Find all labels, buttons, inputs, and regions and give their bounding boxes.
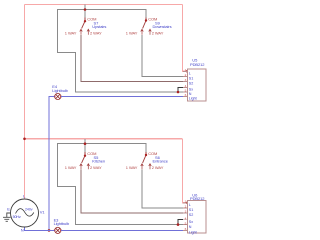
- svg-text:L: L: [23, 193, 26, 198]
- wire branch to U5 pin Sx: [178, 88, 183, 93]
- S5 COM lead: [84, 152, 86, 155]
- svg-text:1: 1: [185, 200, 187, 204]
- U6 body: [188, 201, 207, 233]
- wire S9 1WAY to U5 S1: [142, 35, 183, 77]
- S5 lever: [82, 157, 85, 163]
- svg-text:Downstairs: Downstairs: [153, 24, 172, 29]
- svg-text:5: 5: [185, 89, 187, 93]
- connector U5 PDB212: [183, 57, 206, 101]
- node live rail junction at left vertical: [23, 138, 26, 141]
- svg-text:2 WAY: 2 WAY: [152, 165, 164, 170]
- E3 terminals: [54, 230, 56, 232]
- E4 terminals: [54, 96, 56, 98]
- svg-text:5: 5: [185, 221, 187, 225]
- svg-text:Lightbulb: Lightbulb: [54, 221, 70, 226]
- svg-text:S2: S2: [189, 213, 193, 217]
- svg-text:1 WAY: 1 WAY: [126, 30, 138, 35]
- svg-text:Kitchen: Kitchen: [92, 159, 105, 164]
- svg-text:1: 1: [185, 68, 187, 72]
- wire live bottom rail: [25, 138, 183, 140]
- V1 sine symbol: [16, 209, 34, 216]
- svg-text:Light: Light: [189, 231, 197, 235]
- E3 bulb symbol: [55, 227, 61, 233]
- svg-text:Entrance: Entrance: [153, 159, 169, 164]
- S7 2WAY terminal: [87, 29, 90, 35]
- svg-text:1 WAY: 1 WAY: [65, 30, 77, 35]
- svg-text:3: 3: [185, 78, 187, 82]
- svg-text:Upstairs: Upstairs: [92, 24, 106, 29]
- svg-text:3: 3: [185, 210, 187, 214]
- svg-text:L: L: [189, 72, 191, 76]
- S6 2WAY terminal: [149, 164, 152, 170]
- S6 lever: [143, 156, 146, 163]
- svg-text:2 WAY: 2 WAY: [90, 30, 102, 35]
- S5 1WAY terminal: [80, 164, 83, 170]
- svg-text:S2: S2: [189, 82, 193, 86]
- svg-text:S1: S1: [189, 208, 193, 212]
- lamp E3: [54, 217, 70, 233]
- svg-text:Light: Light: [189, 97, 197, 101]
- wire S9 COM loop across top: [58, 10, 184, 93]
- node crossing of S5 feed and loop: [84, 142, 87, 145]
- wire S6 1WAY to U6 S1: [142, 169, 183, 208]
- svg-text:Lightbulb: Lightbulb: [52, 88, 68, 93]
- S9 COM lead: [145, 18, 147, 21]
- svg-text:N: N: [189, 92, 192, 96]
- switch S7: [65, 17, 107, 36]
- wire live drop to U6 pin L: [183, 139, 188, 203]
- wire S5 1WAY to U6 S2: [81, 169, 183, 213]
- svg-text:6: 6: [185, 93, 187, 97]
- U6 pin stubs 1-6: [183, 203, 188, 231]
- wire S6 COM loop across middle: [58, 144, 184, 225]
- svg-text:PDB212: PDB212: [190, 62, 205, 67]
- wire S5 COM feed from live rail: [84, 139, 86, 152]
- svg-text:Sx: Sx: [189, 220, 193, 224]
- svg-text:S1: S1: [189, 77, 193, 81]
- connector U6 PDB212: [183, 193, 206, 235]
- svg-text:240v: 240v: [25, 208, 33, 212]
- S9 lever: [143, 21, 146, 28]
- svg-text:V1: V1: [40, 210, 46, 215]
- wire S7 COM feed from live rail: [84, 5, 86, 18]
- svg-text:2 WAY: 2 WAY: [152, 30, 164, 35]
- power supply V1: [7, 193, 45, 232]
- lamp E4: [52, 84, 68, 100]
- E4 bulb symbol: [55, 93, 61, 99]
- wire branch to U6 pin Sx: [178, 220, 183, 225]
- svg-text:50Hz: 50Hz: [13, 215, 21, 219]
- switch S9: [126, 17, 172, 36]
- svg-text:2: 2: [185, 205, 187, 209]
- svg-text:N: N: [189, 225, 192, 229]
- S5 2WAY terminal: [87, 164, 90, 170]
- wire E4 neutral drop: [49, 97, 55, 231]
- S9 1WAY terminal: [141, 29, 144, 35]
- svg-text:2 WAY: 2 WAY: [90, 165, 102, 170]
- svg-text:E: E: [7, 206, 10, 211]
- svg-text:Sx: Sx: [189, 88, 193, 92]
- U5 body: [188, 69, 207, 101]
- S9 2WAY terminal: [149, 29, 152, 35]
- svg-text:1 WAY: 1 WAY: [126, 165, 138, 170]
- S6 1WAY terminal: [141, 164, 144, 170]
- wire live drop to U5 pin L: [183, 5, 188, 72]
- svg-text:6: 6: [185, 227, 187, 231]
- node crossing of S7 feed and loop: [84, 8, 87, 11]
- S7 1WAY terminal: [80, 29, 83, 35]
- S5 COM node: [84, 155, 86, 157]
- svg-text:4: 4: [185, 84, 187, 88]
- svg-text:L: L: [189, 203, 191, 207]
- switch S5: [65, 151, 105, 170]
- S7 COM lead: [84, 18, 86, 21]
- S7 COM node: [84, 20, 86, 22]
- wire E4 to U5 Light: [61, 96, 183, 98]
- S6 COM node: [145, 154, 147, 156]
- wire live top rail: [25, 4, 183, 6]
- svg-text:1 WAY: 1 WAY: [65, 165, 77, 170]
- node junction Sx/N lower: [177, 223, 180, 226]
- svg-text:2: 2: [185, 73, 187, 77]
- V1 body: [11, 199, 39, 227]
- wire neutral rail from source: [25, 227, 55, 230]
- U5 pin stubs 1-6: [183, 71, 188, 96]
- S6 COM lead: [145, 152, 147, 155]
- wire live left vertical to source L: [24, 5, 26, 200]
- svg-text:N: N: [21, 228, 24, 233]
- wire E3 to U6 Light: [61, 229, 183, 231]
- svg-text:4: 4: [185, 216, 187, 220]
- wire S7 1WAY to U5 S2: [81, 35, 183, 82]
- S9 COM node: [145, 19, 147, 21]
- node U5 pin L junction: [186, 70, 189, 73]
- ground: [3, 213, 11, 221]
- S7 lever: [82, 22, 85, 28]
- node neutral rail junction: [48, 229, 51, 232]
- node U6 pin L junction: [186, 202, 189, 205]
- switch S6: [126, 151, 169, 170]
- node junction Sx/N: [177, 91, 180, 94]
